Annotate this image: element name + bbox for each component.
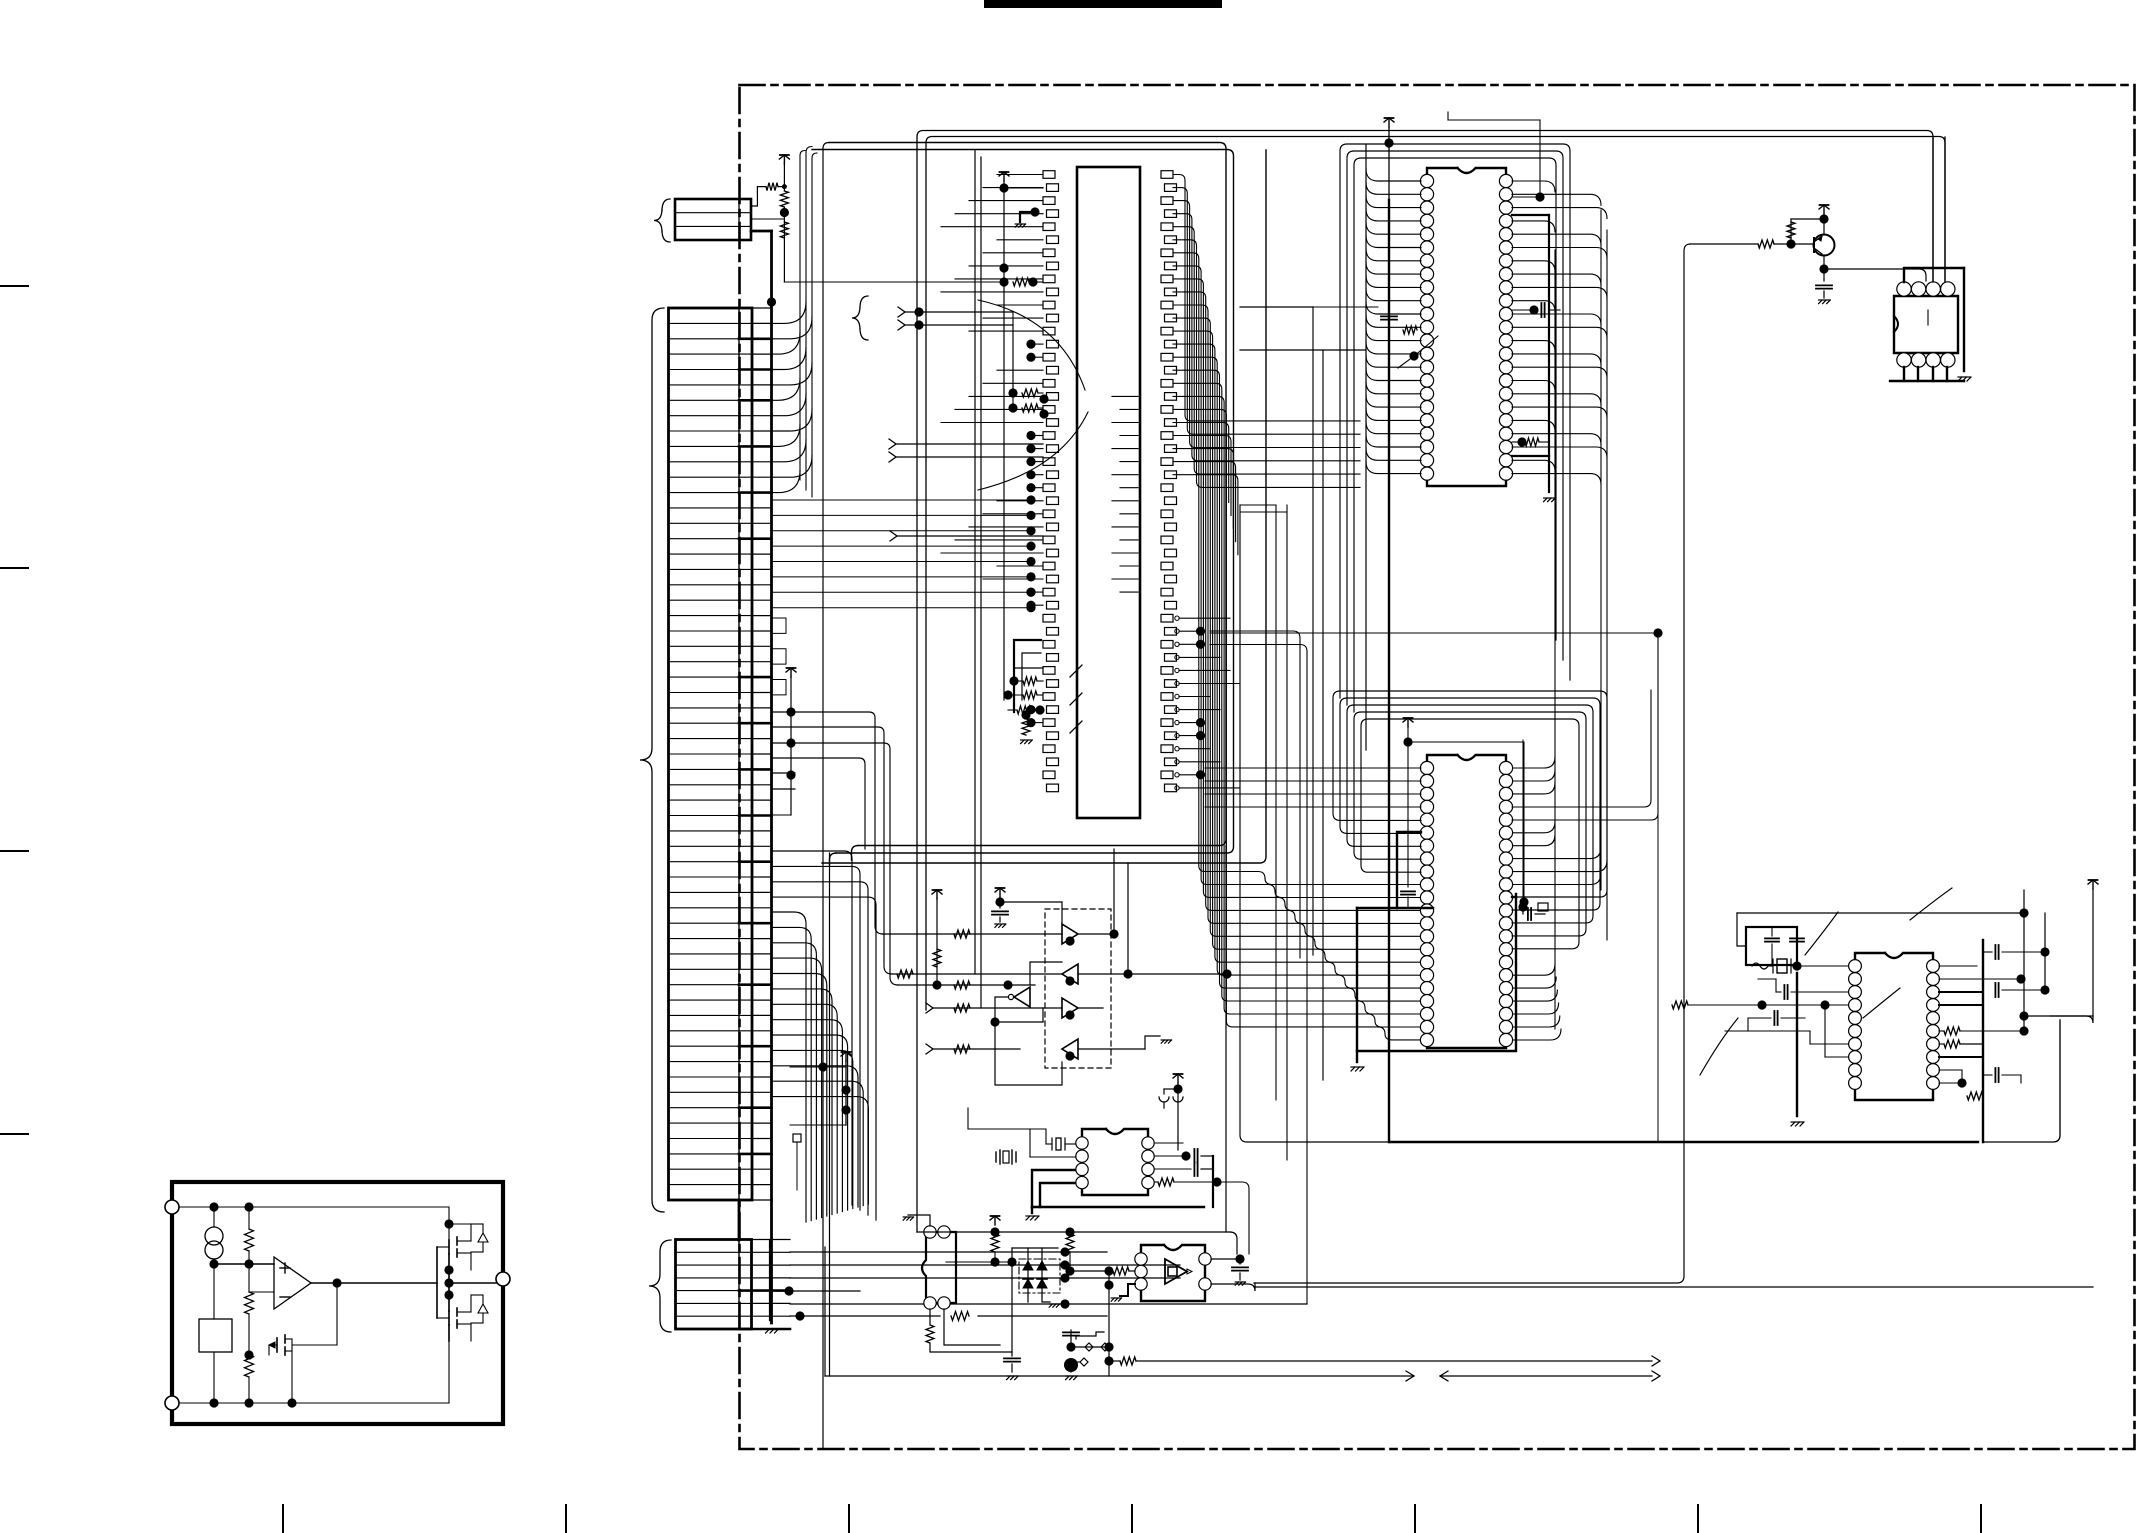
nested bus frames around IC601	[812, 143, 1266, 1009]
buffer dashed box	[1045, 909, 1111, 1068]
IC5001 input chain	[179, 1202, 449, 1407]
reset switch S931	[1004, 1271, 1114, 1380]
connector CN2 brace	[649, 1240, 671, 1332]
connector CN1 brace	[640, 308, 664, 1212]
misc	[916, 130, 918, 132]
power node near CN1 bottom	[790, 1052, 851, 1125]
CN1 long rows mid	[772, 851, 877, 1220]
connector CN0 body	[675, 199, 751, 240]
IC601 right middle pin wires	[1175, 616, 1240, 790]
IC801 hoop buses	[1340, 144, 1570, 712]
IC801 DIP body and pins	[1420, 168, 1512, 486]
connector CN0 brace	[654, 199, 670, 242]
IC601 left pin wires	[941, 175, 1043, 728]
IC802 long rows right	[0, 0, 1, 1]
IC933 wiring	[1070, 1254, 2093, 1301]
bottom bold bus y1142	[1390, 1020, 2060, 1142]
IC802 right cap loop	[1518, 740, 1548, 920]
power tap near CN1	[772, 668, 797, 815]
annotation curve arrows	[978, 300, 1088, 490]
CN1 bus ground	[766, 1329, 779, 1333]
IC601 inner pin marks	[1112, 396, 1138, 592]
IC601 lower-left resistor group	[1003, 640, 1044, 744]
inverter U-loop	[990, 953, 1062, 1085]
IC933 body	[1135, 1245, 1211, 1301]
IC801 right comb down to IC802	[1512, 181, 1607, 1040]
wire CN0 to lower	[0, 0, 1, 1]
buffer C	[926, 998, 1103, 1020]
center vertical pair	[1240, 505, 1392, 1160]
IC802 hoop buses	[1333, 691, 1607, 949]
left registration ticks	[0, 286, 28, 1134]
CN0 bias resistors	[751, 155, 1004, 282]
MOSFET Q5002	[269, 1283, 337, 1408]
IC802 right corner rows	[1512, 633, 1658, 820]
IC601 pin1 power rail	[999, 172, 1043, 700]
IC931 body and pins	[1076, 1129, 1154, 1195]
ground lug at IC601 pin4	[1015, 207, 1039, 227]
dash-dot board boundary	[740, 85, 2135, 1449]
IC801 right decoupling	[1512, 215, 1560, 502]
CN2 output wires	[775, 1247, 1307, 1320]
IC802 power and ground wiring	[1351, 718, 1529, 1071]
connector CN1 body	[669, 308, 753, 1200]
CN2 divider ext	[0, 0, 1, 1]
IC931 crystal input	[968, 1108, 1075, 1164]
IC901 bus wiring	[1890, 137, 1971, 381]
IC801 left comb fan	[1366, 145, 1421, 750]
MOSFET pair Q5003 Q5004	[437, 1216, 496, 1341]
buffer B	[892, 846, 1232, 1233]
diode bridge D931	[1012, 1248, 1060, 1307]
IC951 right verticals	[2019, 880, 2098, 1031]
IC932 reset part	[903, 1215, 1012, 1352]
IC802 left comb fan	[0, 0, 1, 1]
long verticals x823	[823, 143, 830, 1450]
connector CN2 body	[676, 1240, 752, 1330]
bottom signal wires	[825, 1247, 1660, 1381]
IC5001 outline and terminals	[165, 1182, 510, 1424]
IC601 right pin pads	[1161, 171, 1177, 792]
CN1 divider extension	[738, 1200, 741, 1240]
junction on CN1 bus top	[767, 297, 776, 306]
top rail R2	[926, 137, 1945, 1011]
IC931 right wiring	[1026, 1074, 1249, 1254]
transistor Q901 bias network	[1690, 205, 1926, 304]
IC601 body	[1077, 167, 1140, 818]
feedback loop right	[1254, 244, 1690, 1283]
buffer A	[883, 849, 1119, 946]
reset rails	[917, 1216, 1237, 1352]
IC801 left cap and resistor	[1381, 308, 1438, 368]
CN1 comb B bundle	[772, 912, 869, 1222]
no-connect slashes	[1070, 665, 1082, 733]
IC601 right upper bundle to lower fan	[1173, 175, 1421, 1040]
IC951 body and pins	[1849, 953, 1940, 1100]
CN1 stub jogs	[772, 618, 787, 695]
CN1 corner-down stubs	[772, 712, 899, 985]
buffer power	[992, 888, 1062, 927]
resistor R at IC601 282	[999, 263, 1043, 286]
crystal X951 circuit	[1737, 908, 2029, 973]
IC801 left bold rail	[1384, 118, 1394, 1142]
CN0 bold wire down	[751, 230, 772, 233]
op-amp A5001	[249, 1257, 437, 1309]
CN2 gnd column	[769, 1240, 771, 1320]
CN1 comb A bundle	[772, 147, 818, 498]
CN1 pin stubs	[739, 308, 772, 1200]
CN1 bus vertical thick	[770, 231, 773, 1323]
IC951 right RC network	[1863, 888, 2050, 1142]
small pad below CN1	[793, 1134, 801, 1190]
bottom registration ticks	[283, 1505, 1981, 1533]
CN1 rows to IC601 left pins	[772, 495, 1036, 612]
title underline bar	[984, 0, 1222, 8]
IC601 left pin pads	[1043, 171, 1059, 792]
mid horizontals	[1205, 628, 1663, 1142]
buffer bias resistor	[898, 890, 1035, 990]
top rail R1	[917, 131, 1933, 1233]
mid verticals 1313 1323	[1240, 307, 1378, 1080]
edge reinforce	[171, 1182, 173, 1424]
single input arrows	[889, 439, 1043, 541]
CN2 pin stubs	[739, 1240, 790, 1330]
bus IC601 to IC802 left	[1210, 631, 1307, 1304]
IC801 top feedback line	[1448, 112, 1545, 202]
IC901 body and pins	[1894, 282, 1958, 367]
differential input pair	[852, 296, 1049, 419]
IC951 left RC network	[1672, 973, 1848, 1126]
IC802 DIP body and pins	[1420, 755, 1512, 1048]
buffer D	[926, 1036, 1172, 1061]
